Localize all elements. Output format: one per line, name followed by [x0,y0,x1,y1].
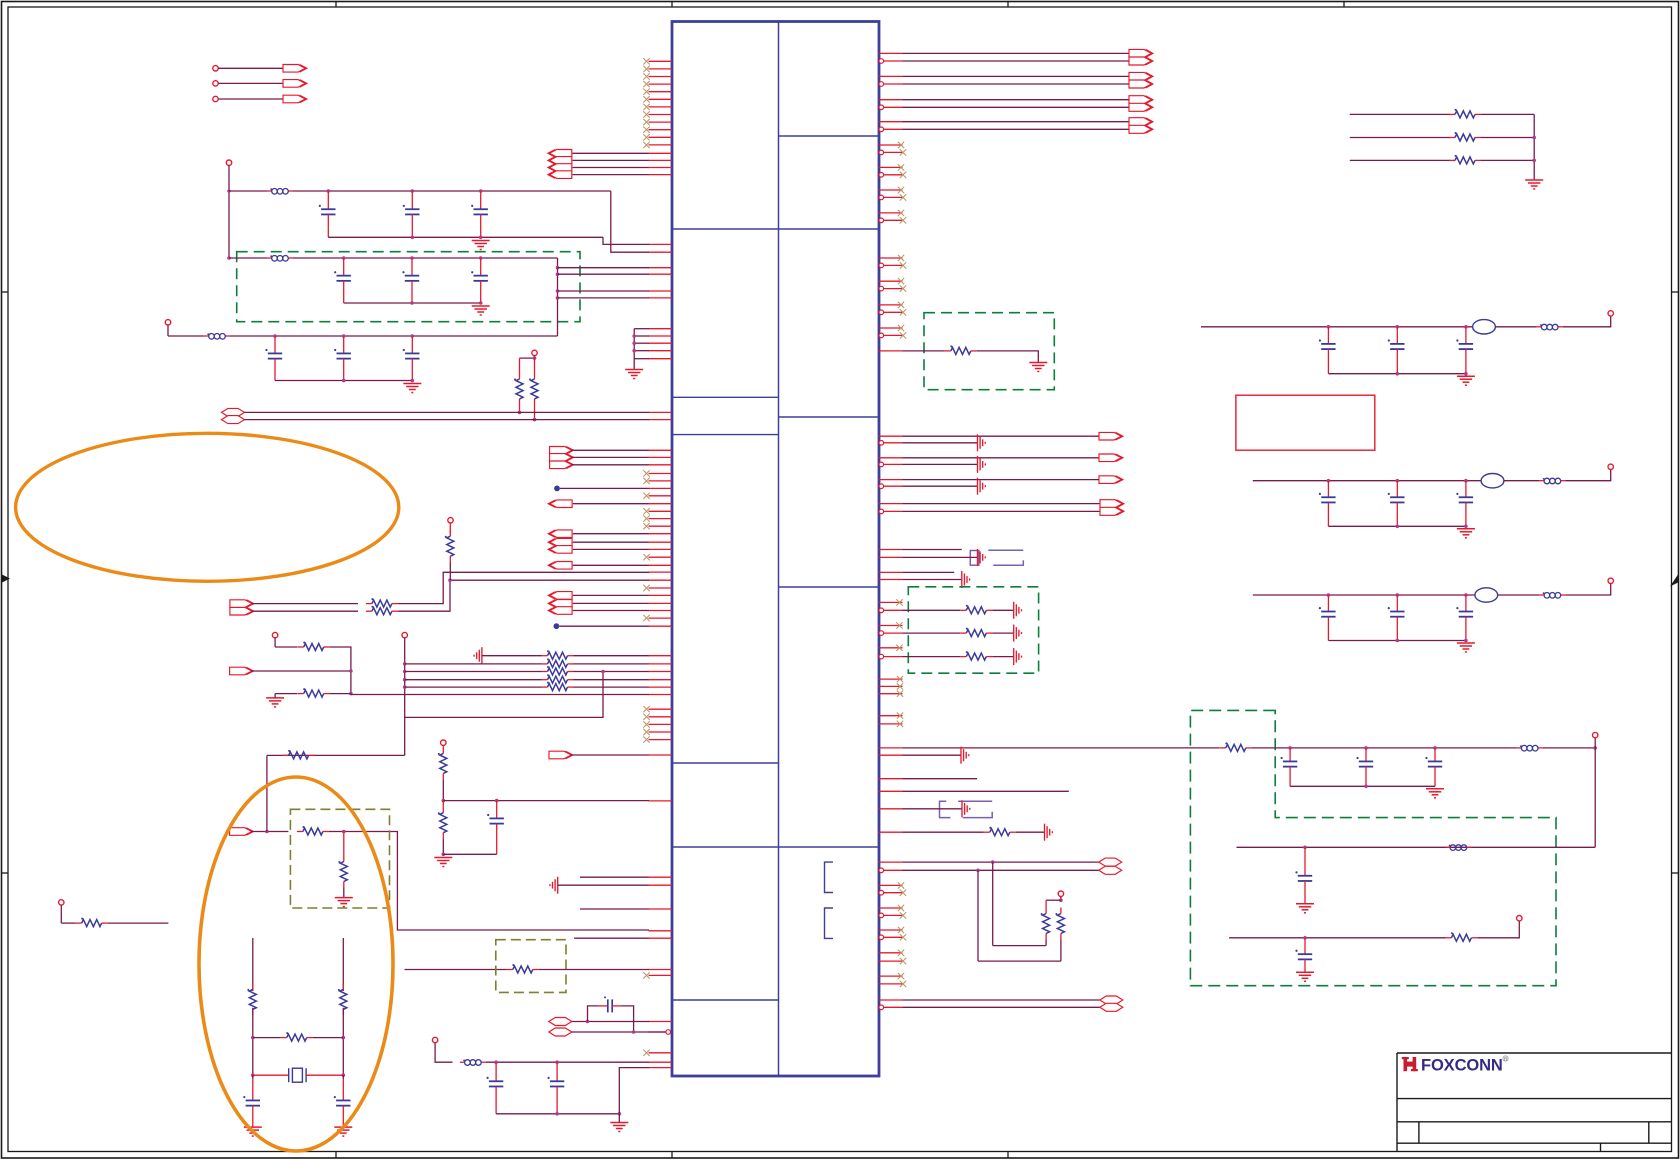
IC U1 left pin y1032 bubble [666,1030,671,1035]
IC U1 left column divider y435 [672,434,779,436]
wire up to terminal [1594,738,1596,748]
wire cap return [1328,640,1466,642]
IC U1 left pin y931 [649,930,673,932]
capacitor C22 [1425,748,1442,786]
connector input arrow y565 [548,562,572,570]
junction [1396,479,1400,483]
wire row a [252,603,358,605]
capacitor C1 [319,191,336,237]
wire R12 left lead [267,754,283,756]
IC U1 right column divider y417 [779,416,880,418]
junction [1433,746,1437,750]
inductor [1539,592,1565,598]
border zone tick right 1 [1672,291,1679,293]
junction [442,799,446,803]
ground C11 [244,1127,262,1136]
junction [410,301,414,305]
pull-up resistor R8 with terminal [448,518,453,523]
wire rail3 [230,335,558,337]
supply filter wire [1253,594,1475,596]
wire cap return [443,853,496,855]
sideways ground R33 [1045,824,1053,841]
sideways ground + IC left pin y885 [550,877,558,894]
resistor R16 [507,964,539,973]
IC right pin y549 stub [879,549,903,551]
wire rail2 left [229,257,267,259]
resistor R10 [438,747,447,779]
junction [555,1112,559,1116]
IC right X pins y716-724 [879,713,904,728]
IC right pair to wide arrow y503-511 [879,500,1124,516]
capacitor C7 [265,336,282,381]
IC right pin y557 to sideways ground [879,556,903,558]
wire row4 [405,679,542,681]
termination bracket symbol T2 [940,801,993,817]
terminal [1608,311,1613,316]
junction [349,692,353,696]
sideways ground T1 [978,549,986,566]
junction [1464,525,1468,529]
wire row b [252,610,358,612]
IC U1 left pin y877 [580,876,649,878]
junction [518,411,522,415]
wire to corner [330,647,351,694]
junction [342,334,346,338]
wire [252,1008,254,1075]
ground R14 [335,898,353,907]
ground rail1 [472,241,490,250]
wire tap to pin y274 [558,273,650,275]
IC U1 right column divider y136 [779,135,880,137]
junction [1593,746,1597,750]
ground rail2 [472,306,490,315]
wire xtal1 [572,1021,649,1023]
wire arrow-resistor [251,831,288,833]
3-wire terminator group top right [1350,109,1534,164]
border zone tick bottom 3 [1007,1152,1009,1159]
wire row3 [405,671,542,673]
border zone tick left 1 [2,291,9,293]
junction [1303,936,1307,940]
ground top right [1525,180,1543,189]
junction [555,1060,559,1064]
junction [494,1060,498,1064]
IC U1 left pin y1062 [649,1061,673,1063]
supply filter wire [1201,326,1473,328]
power terminal for fan [402,632,407,637]
junction [1464,325,1468,329]
IC U1 left pin y1068 [649,1067,673,1069]
terminal rail y748 [1593,732,1598,737]
resistor R30 [945,345,977,354]
capacitor C5 [402,258,419,303]
capacitor [1319,481,1336,527]
ground C23 [1296,904,1314,913]
riser corner [266,755,268,831]
inductor L21 [1445,845,1471,851]
pull-up terminal [532,350,537,355]
wire cap return [1328,373,1466,375]
capacitor [1388,481,1405,527]
IC U1 left pins bus pair y412/420 [649,411,673,413]
series resistor row R24 y687 [542,682,574,691]
ground bottom supply [610,1123,628,1132]
capacitor C8 [334,336,351,381]
capacitor [1388,595,1405,641]
IC right pin y809 to sideways ground [879,808,903,810]
junction y870 [976,869,980,873]
series resistor row R22 y671 [542,666,574,675]
IC right pairs to single arrows y436-487 with sideways grounds [879,432,1123,494]
ground [1457,529,1475,538]
pull resistor network at x1046/1061 [978,862,1064,961]
junction [342,256,346,260]
wire after R40 [1252,747,1517,749]
rail y938 wire [1229,937,1445,939]
wire R33 to ground [1016,831,1045,833]
wire tap to pin y268 [558,267,650,269]
diamond bus connector pair left [222,408,245,416]
resistor R33 [984,827,1016,836]
IC U1 left column divider y763 [672,762,779,764]
resistor R6 [366,598,398,607]
rail y847 wire [1237,846,1596,848]
sideways ground y579 [962,571,970,588]
border zone tick top 4 [1343,2,1345,8]
terminal rail y938 [1517,916,1522,921]
capacitor [1456,595,1473,641]
green dashed option box (series terminators) [908,587,1038,673]
IC U1 left X pin [649,974,673,976]
crystal right leg [342,938,344,991]
border zone tick bottom 1 [335,1152,337,1159]
capacitor C14 [487,1062,504,1114]
junction [601,670,605,674]
IC U1 left X pin [649,556,673,558]
junction [556,266,560,270]
junction [1464,479,1468,483]
border center arrow left [2,575,10,583]
termination bracket symbol T1 [970,550,1023,565]
resistor R17 [247,983,256,1015]
junction [1327,325,1331,329]
IC right bus pair y862/870 to diamond connectors [879,858,1122,874]
capacitor [1319,595,1336,641]
IC U1 left X pin [649,480,673,482]
IC right X pins y679-694 [879,676,904,697]
wire R5 to junction [330,693,351,695]
inductor [1539,478,1565,484]
resistor R13 row y831 [297,826,329,835]
bus wire y412 [245,411,650,413]
IC right pin y755 to sideways ground [879,754,903,756]
junction [448,578,452,582]
sideways ground T2 [962,800,970,817]
junction [1464,593,1468,597]
wire VCC3 down [167,325,169,336]
wire to ground [618,1114,620,1123]
junction [1364,785,1368,789]
vertical bus [1533,114,1535,180]
registered mark [1503,1056,1508,1061]
inductor L1 [267,188,293,194]
capacitor C20 [1281,748,1298,786]
wire rail1 [293,190,611,192]
IC U1 left pin y274.2 [649,273,673,275]
junction [411,189,415,193]
junction [479,189,483,193]
wire rail1 to IC pin [611,191,649,252]
wire xtal2 [572,1031,666,1033]
resistor chain terminal [441,740,446,745]
junction [251,1073,255,1077]
IC right no-connect pairs y885-984 [879,882,907,987]
terminal [1608,578,1613,583]
ground of R30 [1029,363,1047,372]
wire rail2 [293,257,558,259]
wire y694 to IC [351,694,649,696]
junction [1396,325,1400,329]
wire left R5 [275,693,297,695]
junction [251,1036,255,1040]
wire rail2 tap bus x557 [557,258,559,336]
resistor R7 [366,606,398,615]
IC U1 right column divider y587 [779,586,880,588]
crystal Y1 [253,1074,289,1076]
border center arrow right [1670,575,1678,587]
junction riser x267 [265,830,269,834]
capacitor [1456,327,1473,374]
wire rail to IC [486,1061,649,1063]
junction [533,356,537,360]
IC U1 right no-connect pin pairs y258-335 [879,255,907,339]
junction [479,301,483,305]
green dashed option box around R30 [924,313,1054,390]
wire VCC1 down [228,165,230,258]
junction [342,1073,346,1077]
junction rail1 [227,189,231,193]
junction [349,669,353,673]
IC U1 internal vertical divider [778,22,780,1077]
ground rail3 [403,384,421,393]
wire rail3 cap return [275,380,412,382]
wire vertical ground bus x634 [633,329,635,370]
connector output arrow y671 [230,667,254,675]
wire R41 to terminal [1477,921,1519,938]
bus wire y420 [245,419,650,421]
resistor R14 to ground [343,832,345,856]
Foxconn logo mark [1402,1057,1418,1071]
wire row2 [405,663,542,665]
connector input arrow y504 [548,500,572,508]
ferrite bead ellipse [1475,588,1498,602]
junction [410,256,414,260]
junction [1396,593,1400,597]
ferrite bead ellipse [1473,320,1496,334]
IC U1 left X pin [649,473,673,475]
connector input arrow y534 [548,530,572,538]
wire long rail y748 to right network [903,747,1220,749]
junction rail2 [227,256,231,260]
left standalone net: terminal + resistor [59,900,64,905]
net stub dot pin y488 [554,486,560,492]
IC U1 left pin y694 [649,694,673,696]
IC U1 left pin y1021 (crystal) [649,1021,673,1023]
IC U1 left no-connect pin group (top 12 pins) [643,58,672,148]
capacitor C13 horizontal [598,996,622,1012]
capacitor C12 [342,1075,344,1079]
pull terminal [272,632,277,637]
IC U1 full divider y229 [672,228,879,230]
connector output arrow y755 [549,751,573,759]
ground chain [434,858,452,867]
IC U1 left pin y580 [649,579,673,581]
ground below pin bus x634 [625,370,643,379]
wire R15 right [108,922,169,924]
wire row a to riser [398,572,649,603]
IC U1 full divider y847 [672,846,879,848]
IC U1 left pin y291 [649,290,673,292]
sideways ground y755 [961,747,969,764]
wire cap return [1328,525,1466,527]
IC U1 right bus pairs to wide output arrows (top) [879,49,1153,133]
supply filter wire [1253,480,1481,482]
wire row1 [482,655,542,657]
capacitor [1456,481,1473,527]
junction [632,341,636,345]
wire to terminal [1565,584,1610,596]
wire [342,1008,344,1075]
wire pull-up top [520,356,535,359]
IC right pin y779 stub [879,778,903,780]
single arrow + resistor row y831 [230,828,254,836]
wire down [274,638,276,647]
red option box [1236,395,1375,450]
vertical bus x405 [404,638,406,756]
connector input arrow trio y595-611 [548,592,672,615]
wire rail3 left [168,335,204,337]
wire tap to pin y291 [558,290,650,292]
wire R16 to IC [539,969,649,971]
bottom supply terminal [432,1037,437,1042]
inductor L4 [460,1060,486,1066]
large green dashed option box (stepped outline) [1190,710,1556,985]
junction [479,256,483,260]
IC U1 inner bracket mark 2 [825,908,834,938]
wire [1504,480,1540,482]
capacitor C23 [1295,847,1312,904]
capacitor C10 [487,801,504,855]
junction [632,349,636,353]
wire rail2 cap return [344,302,481,304]
wire to terminal [1565,470,1610,481]
IC U1 left X pin [649,510,673,512]
resistor R5 [298,688,330,697]
junction [411,236,415,240]
wire cap return to IC pin [603,237,649,244]
connector chevron pair bottom-left [230,600,254,608]
junction [411,379,415,383]
capacitor C3 [471,191,488,237]
junction [1532,159,1536,163]
capacitor C4 [334,258,351,303]
junction [273,334,277,338]
IC U1 main body outline [672,22,879,1077]
ground [1457,643,1475,652]
wire cap return [496,1113,619,1115]
olive dashed box around R13 [290,809,389,908]
resistor R41 [1445,932,1477,941]
junction [1327,479,1331,483]
wire to corner [1543,747,1596,749]
junction [495,799,499,803]
feedback resistor R19 [253,1037,281,1039]
junction [618,1112,622,1116]
ferrite bead ellipse [1481,474,1504,488]
wire [1495,326,1536,328]
junction [342,379,346,383]
power terminal VCC1 [226,160,231,165]
junction [1396,525,1400,529]
wire rail y801 to IC [443,800,649,802]
border zone tick top 1 [335,2,337,8]
junction [403,662,407,666]
IC U1 left X pin [649,1052,673,1054]
IC U1 left pin y267.7 [649,267,673,269]
junction [586,1020,590,1024]
ground rail y748 [1426,789,1444,798]
wire to terminal [1563,316,1611,327]
green dashed option box rail2 [237,252,580,322]
IC U1 left pin y909 [580,908,649,910]
rail y748: resistor R40 [1220,742,1252,751]
resistor R15 [76,918,108,927]
junction [403,678,407,682]
top-left output connector trio [213,65,307,103]
IC U1 inner bracket mark 1 [825,862,834,892]
capacitor [1388,327,1405,374]
IC U1 left pin y938 [574,937,649,939]
junction [327,189,331,193]
wire [1498,594,1540,596]
bridge cap loop [588,1006,599,1022]
inductor [1537,324,1563,330]
wire IC pin y351 to R30 [879,350,903,352]
resistor R4 [298,642,330,651]
connector J2 input arrows (4) feeding IC left pins y153-175 [548,150,672,179]
inductor L20 [1517,745,1543,751]
IC U1 right no-connect pin pairs y145-221 [879,142,907,224]
junction [556,272,560,276]
wire cap return [1290,785,1435,787]
IC U1 left pin y297.9 [649,297,673,299]
resistor R2 vertical [519,358,521,373]
resistor R3 vertical [534,358,536,373]
series resistor row R20 y656 [542,650,574,659]
inductor L2 [267,255,293,261]
border zone tick right 2 [1672,872,1679,874]
inductor L3 [204,333,230,339]
junction [1464,372,1468,376]
junction [556,296,560,300]
IC U1 left column divider y1000 [672,999,779,1001]
IC U1 left X pin [649,495,673,497]
resistor R18 [338,983,347,1015]
capacitor C21 [1356,748,1373,786]
capacitor C9 [403,336,420,381]
IC right pin y572 stub [879,571,903,573]
junction [1464,639,1468,643]
